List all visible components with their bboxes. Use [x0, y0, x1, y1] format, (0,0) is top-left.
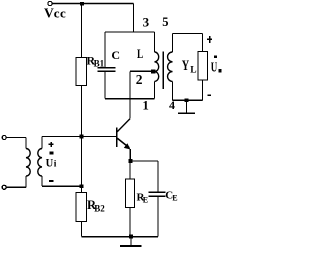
svg-text:E: E	[172, 194, 177, 203]
svg-text:Y: Y	[182, 58, 190, 74]
svg-text:5: 5	[162, 15, 168, 29]
wire inductor top lead	[154, 32, 156, 52]
wire output loop right lower	[202, 80, 204, 100]
node emitter junction	[129, 159, 133, 163]
wire tank left upper	[104, 32, 106, 67]
wire RE branch lower	[129, 208, 131, 237]
node inductor tap junction	[151, 69, 155, 73]
wire emitter to CE	[131, 160, 159, 162]
label - input	[49, 180, 54, 182]
svg-text:1: 1	[142, 97, 149, 112]
resistor RE	[126, 179, 135, 208]
svg-text:3: 3	[143, 15, 150, 30]
wire tank top	[105, 31, 155, 33]
wire main left vertical upper	[81, 4, 83, 58]
label Uo with phasor dot	[214, 55, 217, 58]
svg-text:B2: B2	[94, 203, 105, 213]
transistor Q1 collector diagonal	[117, 119, 130, 132]
wire output loop top	[173, 33, 203, 35]
transistor Q1 base bar	[116, 128, 118, 148]
transistor Q1 emitter arrowhead	[124, 143, 131, 149]
node input terminal bottom	[2, 185, 6, 189]
wire RE branch upper	[129, 161, 131, 179]
wire output secondary top lead	[172, 34, 174, 53]
wire input primary bottom	[6, 176, 26, 187]
label + output	[207, 36, 212, 43]
resistor RB2	[76, 193, 87, 222]
wire CE branch lower	[157, 197, 159, 237]
resistor RB1	[76, 58, 87, 86]
wire tank bottom	[105, 98, 155, 100]
label + input	[48, 142, 53, 147]
svg-text:E: E	[143, 196, 148, 205]
svg-text:B1: B1	[94, 58, 105, 68]
wire input secondary bottom lead	[41, 176, 43, 186]
node input terminal top	[2, 136, 6, 140]
inductor L coil	[155, 52, 159, 81]
wire output loop right upper	[202, 34, 204, 52]
svg-text:C: C	[111, 48, 120, 62]
wire output secondary bottom lead	[172, 82, 174, 101]
svg-text:i: i	[54, 159, 57, 169]
ground output bar	[178, 112, 195, 114]
wire RB2 to bottom rail	[81, 222, 83, 237]
wire bottom rail	[82, 236, 159, 238]
wire inductor bottom lead	[154, 82, 156, 99]
wire input secondary top lead	[41, 137, 43, 149]
wire Vcc drop to tank top	[133, 4, 135, 33]
Vcc terminal circle	[48, 1, 52, 5]
inductor input secondary coil	[38, 149, 42, 177]
node output ground junction	[185, 98, 189, 102]
node junction on Vcc rail	[80, 2, 84, 6]
ground main bar	[120, 245, 142, 247]
wire Vcc rail	[52, 3, 133, 5]
svg-text:2: 2	[136, 72, 143, 87]
label Ui phasor dot	[50, 152, 54, 155]
wire main left vertical middle	[81, 86, 83, 193]
node RB2 top junction	[80, 184, 84, 188]
wire input secondary bottom to RB2 node	[42, 185, 82, 187]
inductor output secondary coil	[168, 52, 173, 81]
wire collector drop	[129, 71, 131, 118]
capacitor C plates	[98, 68, 116, 72]
svg-text:L: L	[190, 65, 196, 75]
wire input primary top	[6, 138, 26, 149]
capacitor CE plates	[149, 192, 166, 196]
svg-text:U: U	[46, 155, 54, 169]
transformer core	[162, 52, 164, 90]
svg-text:U: U	[211, 59, 218, 74]
load YL box	[198, 52, 208, 81]
wire base	[42, 136, 116, 138]
svg-text:L: L	[137, 46, 143, 61]
inductor input primary coil	[26, 149, 30, 177]
wire main ground stem	[130, 237, 132, 246]
node bottom rail junction	[129, 235, 133, 239]
wire tap to collector horizontal	[130, 70, 153, 72]
wire output ground stem	[186, 100, 188, 113]
wire tank left lower	[104, 72, 106, 99]
svg-text:Vcc: Vcc	[44, 6, 66, 21]
wire output loop bottom	[173, 99, 203, 101]
wire CE branch upper	[157, 161, 159, 192]
label - output	[207, 94, 211, 96]
svg-text:4: 4	[169, 98, 175, 112]
wire emitter lead	[129, 149, 131, 161]
node base junction	[80, 135, 84, 139]
transistor Q1 emitter diagonal	[117, 138, 129, 148]
